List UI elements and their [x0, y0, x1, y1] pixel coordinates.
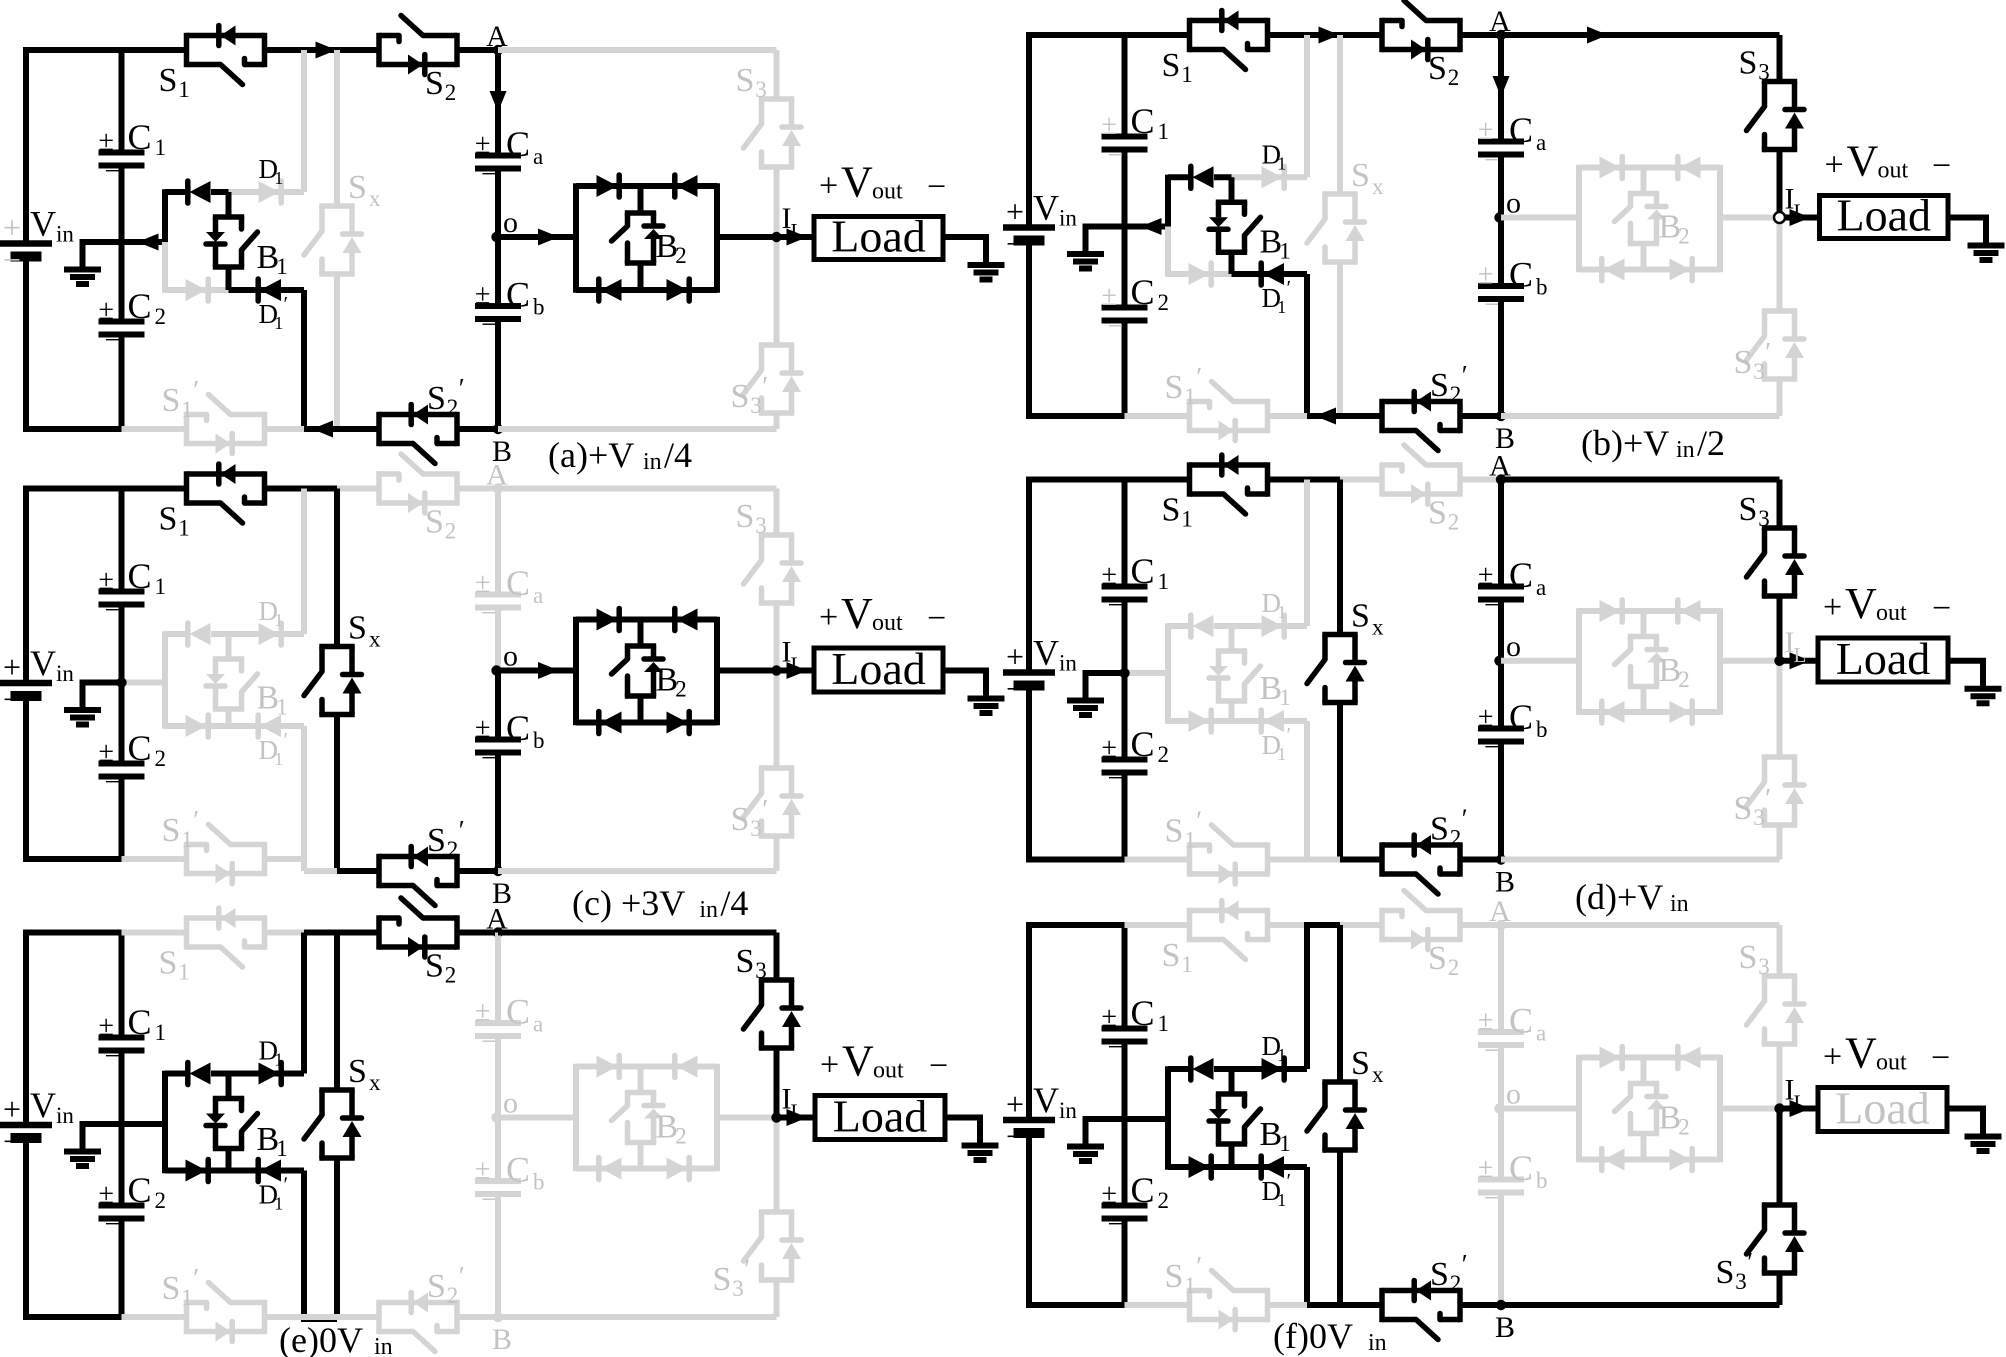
svg-text:±: ± [1478, 115, 1493, 146]
node o f [1494, 1078, 1521, 1114]
svg-text:2: 2 [155, 304, 167, 329]
svg-text:S: S [159, 62, 178, 99]
diode D1&#8242; bottom-right e [229, 1160, 305, 1214]
svg-text:in: in [1059, 1098, 1077, 1123]
svg-text:S: S [1430, 1256, 1449, 1293]
svg-text:2: 2 [1158, 742, 1170, 767]
diode B1 top-left a [165, 181, 229, 203]
switch S2&#8242; d [1382, 804, 1468, 895]
svg-text:Load: Load [1836, 633, 1931, 684]
wire midpoint to B1 d [1119, 668, 1168, 678]
switch S3&#8242; c [731, 768, 802, 841]
cell B2 right edge d [1717, 608, 1723, 714]
wire o to Cb c [495, 671, 501, 740]
svg-text:a: a [533, 1012, 543, 1037]
svg-text:S: S [713, 1261, 732, 1298]
svg-text:x: x [369, 1070, 381, 1095]
diode B2 top-right c [641, 609, 718, 631]
cell B2 right edge f [1717, 1055, 1723, 1162]
wire S2 to node A b [1460, 32, 1501, 38]
node B e [492, 1312, 512, 1356]
svg-text:′: ′ [1196, 362, 1202, 392]
wire Sx branch top d [1337, 480, 1343, 635]
svg-text:a: a [533, 144, 543, 169]
svg-text:2: 2 [445, 80, 457, 105]
wire S1 to S2 c [265, 486, 380, 492]
svg-text:2: 2 [1448, 510, 1460, 535]
cell B2 right edge a [714, 183, 720, 292]
svg-text:x: x [1372, 1062, 1384, 1087]
svg-text:(b)+V: (b)+V [1581, 423, 1669, 463]
svg-text:′: ′ [193, 375, 199, 405]
ground midpoint b [1067, 224, 1125, 269]
svg-text:′: ′ [1287, 276, 1292, 300]
wire bottom C2 to S1&#8242; e [122, 1314, 187, 1320]
cell B2 left edge f [1576, 1055, 1582, 1162]
switch S1&#8242; d [1165, 806, 1268, 885]
svg-text:out: out [872, 179, 903, 205]
switch Sx c [304, 610, 381, 715]
svg-text:in: in [56, 661, 74, 686]
ground output d [1965, 689, 2002, 704]
svg-text:2: 2 [1450, 1271, 1462, 1296]
diode B1 bottom-left a [165, 279, 229, 301]
svg-text:±: ± [1478, 260, 1493, 291]
svg-text:−: − [481, 310, 497, 341]
svg-text:1: 1 [1279, 685, 1291, 710]
svg-text:a: a [1536, 575, 1546, 600]
svg-text:−: − [105, 1209, 121, 1240]
junction node e [771, 1112, 781, 1122]
diode D1 top-right f [1232, 1031, 1308, 1080]
svg-text:b: b [533, 295, 545, 320]
diode B2 bottom-right f [1644, 1149, 1721, 1171]
ground midpoint e [64, 1121, 122, 1166]
bidirectional cell B1 left edge a [162, 189, 168, 292]
svg-text:S: S [736, 498, 755, 535]
svg-text:1: 1 [1181, 507, 1193, 532]
wire o to Cb f [1498, 1109, 1504, 1180]
wire S1&#8242; to corner b [1268, 413, 1308, 419]
svg-text:1: 1 [178, 516, 190, 541]
svg-text:C: C [1131, 272, 1155, 312]
cell B2 right edge e [714, 1064, 720, 1171]
diode B2 top-left f [1579, 1047, 1644, 1069]
wire D1&#8242; corner down b [1304, 274, 1310, 416]
wire top rail to S1 f [1125, 922, 1190, 928]
wire midpoint to B1 e [122, 1121, 166, 1127]
wire Cb to node B e [495, 1194, 501, 1317]
capacitor Cb f [1478, 1148, 1548, 1214]
svg-text:S: S [348, 169, 367, 206]
junction node a [771, 232, 781, 242]
load box b [1820, 190, 1949, 241]
wire o to Cb a [495, 237, 501, 306]
voltage source Vin e [0, 1085, 74, 1159]
svg-text:C: C [1509, 1001, 1533, 1041]
caption f [1273, 1316, 1387, 1356]
wire D1 corner up e [301, 933, 307, 1074]
svg-text:S: S [425, 504, 444, 541]
svg-text:3: 3 [755, 77, 767, 102]
svg-text:2: 2 [675, 243, 687, 268]
svg-text:′: ′ [1196, 806, 1202, 836]
wire node B to S3&#8242; f [1501, 1302, 1780, 1308]
wire S3&#8242; bottom d [1777, 825, 1783, 860]
wire A to Ca b [1493, 35, 1510, 142]
diode B2 bottom-left e [576, 1158, 641, 1180]
wire o to Cb e [495, 1118, 501, 1182]
svg-text:S: S [162, 1270, 181, 1307]
wire load output a [943, 237, 986, 265]
wire S2&#8242; to node B a [457, 426, 498, 432]
svg-text:L: L [791, 219, 804, 243]
diode B2 bottom-left b [1579, 259, 1644, 281]
diode D1&#8242; bottom-right f [1232, 1156, 1308, 1210]
wire S1&#8242; to corner c [265, 859, 305, 871]
svg-text:−: − [1484, 145, 1500, 176]
wire D1&#8242; corner down a [301, 290, 307, 429]
svg-text:C: C [128, 556, 152, 596]
svg-text:1: 1 [276, 1136, 288, 1161]
svg-text:−: − [481, 1027, 497, 1058]
svg-text:C: C [128, 1170, 152, 1210]
node B a [492, 424, 512, 468]
svg-text:S: S [1351, 157, 1370, 194]
wire o to B2 f [1501, 1106, 1579, 1112]
svg-text:V: V [1847, 137, 1879, 186]
svg-text:′: ′ [1747, 1247, 1753, 1277]
svg-text:−: − [1108, 763, 1124, 794]
svg-text:−: − [927, 169, 946, 206]
svg-text:−: − [3, 1123, 21, 1159]
svg-text:in: in [1059, 206, 1077, 231]
capacitor Ca f [1478, 1001, 1546, 1067]
wire junction to S3&#8242; c [774, 671, 780, 769]
svg-text:V: V [1033, 1080, 1059, 1120]
svg-text:3: 3 [732, 1276, 744, 1301]
svg-text:C: C [506, 1150, 530, 1190]
wire S3&#8242; bottom e [774, 1280, 780, 1317]
wire bottom C2 to S1&#8242; b [1125, 413, 1190, 419]
svg-text:C: C [128, 286, 152, 326]
svg-text:−: − [481, 598, 497, 629]
svg-text:S: S [1162, 47, 1181, 84]
diode B2 top-left b [1579, 157, 1644, 179]
capacitor C1 a [99, 117, 167, 187]
label Vout d [1823, 579, 1951, 628]
svg-text:′: ′ [1462, 804, 1468, 834]
ground midpoint c [64, 680, 122, 725]
wire bottom C2 to S1&#8242; f [1125, 1302, 1190, 1308]
svg-text:1: 1 [276, 695, 288, 720]
node o b [1494, 187, 1521, 223]
svg-text:1: 1 [274, 749, 283, 769]
svg-text:(e)0V: (e)0V [279, 1320, 363, 1357]
cell B2 left edge d [1576, 608, 1582, 714]
svg-text:−: − [3, 242, 21, 278]
svg-text:in: in [1368, 1330, 1387, 1356]
svg-text:−: − [105, 767, 121, 798]
svg-text:a: a [1536, 1021, 1546, 1046]
wire S3 top c [774, 489, 780, 536]
ground output a [968, 265, 1005, 280]
load box f [1818, 1083, 1947, 1134]
svg-text:1: 1 [178, 960, 190, 985]
bidirectional cell B1 left edge c [162, 631, 168, 728]
svg-text:out: out [873, 1058, 904, 1084]
wire Sx branch bottom d [1337, 703, 1343, 860]
svg-text:x: x [369, 186, 381, 211]
svg-text:/2: /2 [1697, 423, 1725, 463]
diode B2 bottom-left a [576, 279, 641, 301]
capacitor Ca a [475, 124, 543, 190]
wire top rail to S1 a [122, 47, 187, 53]
svg-text:′: ′ [1196, 1251, 1202, 1281]
ground midpoint d [1067, 670, 1125, 715]
svg-text:in: in [374, 1334, 393, 1357]
wire junction to S3&#8242; e [774, 1118, 780, 1213]
wire o to B2 a [498, 229, 576, 246]
svg-text:S: S [1716, 1254, 1735, 1291]
wire node A to S3 b [1501, 27, 1780, 44]
wire midpoint to B1 a [122, 234, 166, 251]
svg-text:′: ′ [744, 1254, 750, 1284]
svg-text:−: − [1484, 1036, 1500, 1067]
wire bottom C2 to S1&#8242; d [1125, 857, 1190, 863]
switch cell B1 centre b [1209, 177, 1291, 274]
svg-text:′: ′ [1462, 1249, 1468, 1279]
switch cell B2 centre b [1615, 168, 1690, 270]
wire o to Cb d [1498, 661, 1504, 729]
wire load output c [943, 671, 986, 699]
svg-text:S: S [1428, 940, 1447, 977]
switch cell B2 centre d [1615, 611, 1690, 712]
wire Sx branch top a [334, 50, 340, 206]
svg-text:1: 1 [1158, 119, 1170, 144]
svg-text:2: 2 [1450, 826, 1462, 851]
svg-text:+: + [1823, 589, 1842, 626]
diode B1 bottom-left c [165, 715, 229, 737]
wire o to B2 d [1501, 658, 1579, 664]
diode B2 bottom-right c [641, 712, 718, 734]
svg-text:+: + [1825, 147, 1844, 184]
arrow junction to load e [777, 1083, 816, 1127]
voltage source Vin c [0, 643, 74, 717]
svg-text:S: S [427, 1268, 446, 1305]
wire S3 top d [1777, 480, 1783, 529]
svg-text:−: − [1108, 140, 1124, 171]
switch S3 a [736, 62, 802, 167]
svg-text:V: V [1845, 1029, 1877, 1078]
svg-text:±: ± [1102, 1179, 1117, 1210]
wire S3 to junction f [1777, 1044, 1783, 1109]
svg-text:S: S [1734, 344, 1753, 381]
diode D1&#8242; bottom-right d [1232, 710, 1308, 764]
wire S1 to S2 e [265, 930, 380, 936]
svg-text:±: ± [1102, 1002, 1117, 1033]
wire S2&#8242; to node B b [1460, 413, 1501, 419]
diode B2 top-right a [641, 175, 718, 197]
node B d [1495, 854, 1515, 898]
wire Ca to node o c [495, 608, 501, 671]
wire Ca to node o a [495, 169, 501, 238]
wire corner to S2&#8242; b [1307, 408, 1382, 425]
svg-text:′: ′ [284, 728, 289, 752]
svg-text:−: − [1108, 590, 1124, 621]
wire S1 to S2 b [1268, 27, 1383, 44]
wire node B to S3&#8242; d [1501, 857, 1780, 863]
wire node A to S3 f [1501, 922, 1780, 928]
switch S1 b [1162, 11, 1268, 88]
switch S2&#8242; f [1382, 1249, 1468, 1340]
svg-text:±: ± [1478, 560, 1493, 591]
wire A to Ca e [495, 933, 501, 1024]
wire junction to S3&#8242; a [774, 237, 780, 345]
wire junction to S3&#8242; d [1777, 661, 1783, 757]
diode B2 bottom-right e [641, 1158, 718, 1180]
svg-text:1: 1 [274, 1050, 283, 1070]
wire node A to S3 c [498, 486, 777, 492]
svg-text:1: 1 [1184, 1273, 1196, 1298]
svg-text:1: 1 [276, 254, 288, 279]
svg-text:b: b [533, 1170, 545, 1195]
capacitor C1 f [1102, 993, 1170, 1063]
bidirectional cell B1 left edge f [1165, 1066, 1171, 1169]
switch S3 b [1739, 45, 1805, 150]
capacitor C2 e [99, 1170, 167, 1240]
svg-text:′: ′ [1765, 337, 1771, 367]
diode D1 top-right d [1232, 588, 1308, 637]
voltage source Vin f [1003, 1080, 1077, 1154]
svg-text:±: ± [475, 129, 490, 160]
diode B2 top-left e [576, 1056, 641, 1078]
svg-text:+: + [1006, 1086, 1024, 1122]
diode D1 top-right a [229, 154, 305, 203]
wire A to Ca a [490, 50, 507, 156]
svg-text:±: ± [99, 295, 114, 326]
svg-text:−: − [481, 1185, 497, 1216]
svg-text:S: S [427, 822, 446, 859]
svg-text:2: 2 [447, 1283, 459, 1308]
wire capacitor column a [119, 50, 125, 429]
switch cell B2 centre f [1615, 1058, 1690, 1160]
switch S2 b [1382, 1, 1460, 91]
svg-text:2: 2 [155, 1188, 167, 1213]
svg-text:3: 3 [750, 393, 762, 418]
wire S2&#8242; to node B f [1460, 1302, 1501, 1308]
switch Sx b [1307, 157, 1384, 262]
switch S1 e [159, 908, 265, 985]
wire S1 to S2 d [1268, 477, 1383, 483]
svg-text:−: − [105, 325, 121, 356]
diode D1 top-right c [229, 596, 305, 645]
svg-text:±: ± [99, 737, 114, 768]
svg-text:+: + [1823, 1039, 1842, 1076]
svg-text:b: b [1536, 1168, 1548, 1193]
wire B2 to junction f [1720, 1106, 1780, 1112]
svg-text:in: in [699, 897, 718, 923]
svg-text:±: ± [1478, 702, 1493, 733]
switch Sx e [304, 1053, 381, 1158]
svg-text:C: C [1131, 551, 1155, 591]
wire A to Ca c [495, 489, 501, 595]
svg-text:in: in [1670, 891, 1689, 917]
wire capacitor column f [1122, 925, 1128, 1305]
svg-text:3: 3 [1735, 1269, 1747, 1294]
svg-text:C: C [1131, 724, 1155, 764]
node A a [486, 20, 508, 55]
wire capacitor column e [119, 933, 125, 1318]
switch S3&#8242; b [1734, 311, 1805, 384]
switch S2&#8242; a [379, 373, 465, 464]
svg-text:C: C [1509, 110, 1533, 150]
wire o to Cb b [1498, 218, 1504, 287]
wire midpoint to B1 b [1125, 218, 1169, 235]
diode B2 bottom-left f [1579, 1149, 1644, 1171]
svg-text:+: + [3, 649, 21, 685]
svg-text:V: V [1033, 633, 1059, 673]
wire Sx branch bottom b [1337, 262, 1343, 416]
switch S2 c [379, 454, 457, 544]
switch S3&#8242; d [1734, 757, 1805, 830]
svg-text:2: 2 [447, 837, 459, 862]
svg-text:C: C [1509, 255, 1533, 295]
svg-text:Load: Load [831, 643, 926, 694]
switch cell B1 centre a [206, 192, 288, 290]
wire S3&#8242; bottom a [774, 413, 780, 429]
caption a [548, 435, 692, 475]
wire bottom C2 to S1&#8242; a [122, 426, 187, 432]
switch S1&#8242; f [1165, 1251, 1268, 1330]
wire B2 to junction b [1720, 215, 1780, 221]
wire S1 to S2 f [1268, 922, 1383, 928]
svg-text:′: ′ [762, 371, 768, 401]
svg-text:B: B [1495, 1311, 1515, 1344]
svg-text:′: ′ [1287, 723, 1292, 747]
junction node c [771, 665, 781, 675]
diode B1 bottom-left f [1168, 1156, 1232, 1178]
svg-text:′: ′ [459, 1261, 465, 1291]
svg-text:±: ± [1102, 733, 1117, 764]
switch S1&#8242; a [162, 375, 265, 454]
svg-text:L: L [791, 653, 804, 677]
svg-text:B: B [1495, 866, 1515, 899]
svg-text:+: + [3, 210, 21, 246]
wire S3 top f [1777, 925, 1783, 976]
switch S3 c [736, 498, 802, 603]
diode B1 top-left d [1168, 615, 1232, 637]
load box d [1818, 633, 1948, 684]
svg-text:2: 2 [1158, 290, 1170, 315]
svg-text:S: S [1162, 492, 1181, 529]
svg-text:C: C [1131, 101, 1155, 141]
wire Sx branch bottom f [1337, 1150, 1343, 1305]
node A c [486, 459, 508, 494]
svg-text:V: V [841, 158, 873, 207]
switch S3&#8242; f [1716, 1205, 1805, 1294]
junction node d [1774, 656, 1784, 666]
svg-text:−: − [1484, 1183, 1500, 1214]
svg-text:S: S [1739, 45, 1758, 82]
svg-text:±: ± [475, 713, 490, 744]
capacitor C2 a [99, 286, 167, 356]
svg-text:′: ′ [762, 794, 768, 824]
ground output b [1968, 246, 2005, 261]
svg-text:1: 1 [1279, 239, 1291, 264]
svg-text:3: 3 [755, 958, 767, 983]
switch S3 f [1739, 939, 1805, 1044]
